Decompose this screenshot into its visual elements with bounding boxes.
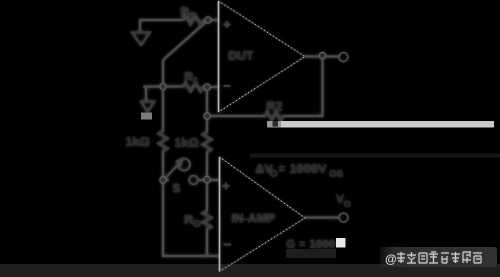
svg-text:R2: R2 <box>266 99 283 114</box>
svg-text:S: S <box>172 181 181 196</box>
svg-text:1kΩ: 1kΩ <box>174 135 199 150</box>
svg-text:G: G <box>193 219 201 230</box>
svg-text:O: O <box>344 199 351 210</box>
svg-text:O: O <box>270 169 278 180</box>
svg-text:= 1000V: = 1000V <box>278 161 327 176</box>
svg-text:IN-AMP: IN-AMP <box>231 212 275 226</box>
svg-text:1: 1 <box>193 76 199 87</box>
svg-text:G = 1000: G = 1000 <box>286 237 336 251</box>
svg-text:OS: OS <box>329 169 344 180</box>
svg-text:@: @ <box>385 252 397 266</box>
svg-text:DUT: DUT <box>228 49 254 63</box>
svg-text:1kΩ: 1kΩ <box>125 134 150 149</box>
svg-text:P: P <box>189 11 196 22</box>
